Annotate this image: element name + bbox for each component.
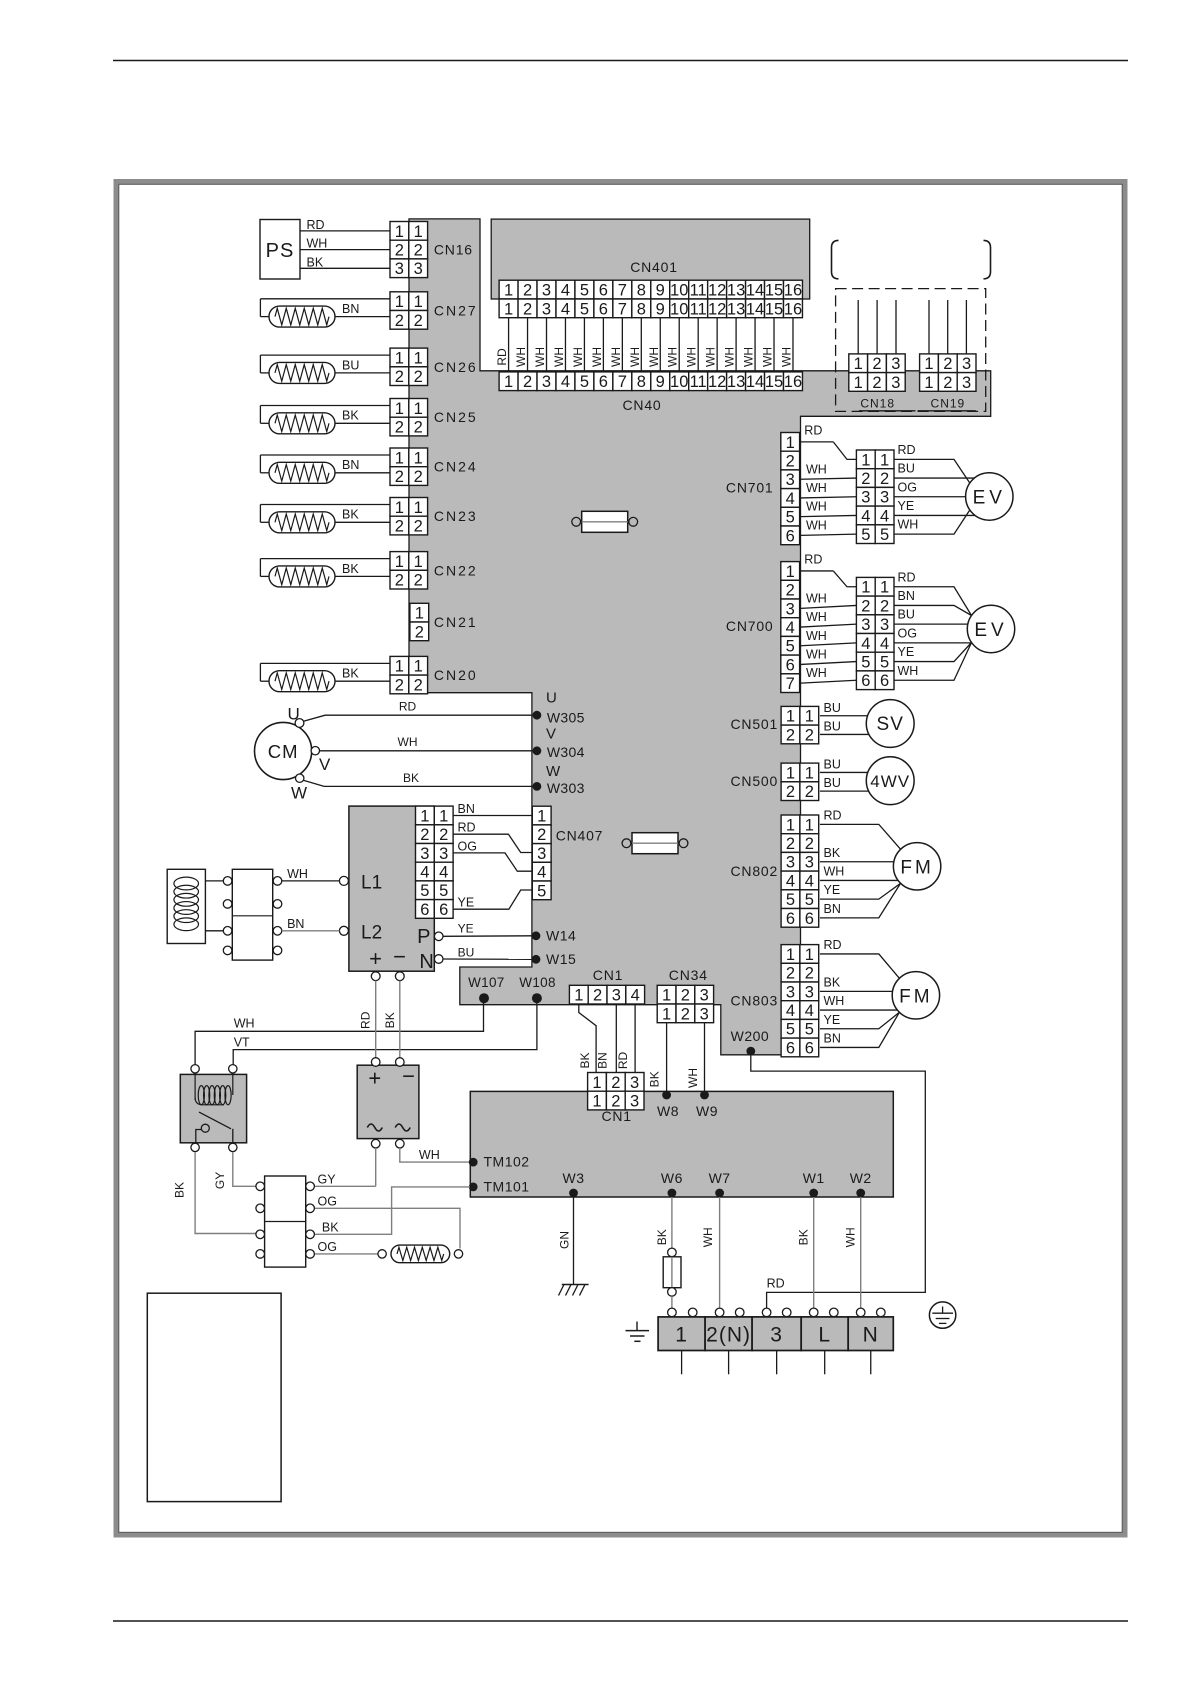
svg-text:11: 11 bbox=[690, 300, 707, 318]
svg-text:16: 16 bbox=[784, 373, 802, 391]
svg-text:WH: WH bbox=[514, 347, 528, 367]
svg-text:CN701: CN701 bbox=[726, 480, 774, 496]
svg-text:2: 2 bbox=[395, 517, 404, 535]
svg-text:3: 3 bbox=[630, 1074, 639, 1092]
svg-text:W15: W15 bbox=[546, 951, 576, 967]
svg-text:CN407: CN407 bbox=[556, 828, 604, 844]
svg-text:2: 2 bbox=[395, 572, 404, 590]
svg-text:2: 2 bbox=[395, 312, 404, 330]
svg-text:1: 1 bbox=[414, 223, 423, 241]
svg-text:2: 2 bbox=[943, 374, 952, 392]
svg-text:5: 5 bbox=[805, 891, 814, 909]
svg-text:EV: EV bbox=[973, 488, 1006, 509]
svg-text:1: 1 bbox=[861, 579, 870, 597]
svg-text:GN: GN bbox=[558, 1231, 572, 1249]
svg-text:WH: WH bbox=[552, 347, 566, 367]
svg-text:1: 1 bbox=[395, 553, 404, 571]
svg-text:W14: W14 bbox=[546, 927, 576, 943]
svg-text:VT: VT bbox=[234, 1036, 250, 1050]
svg-text:5: 5 bbox=[580, 373, 589, 391]
svg-text:6: 6 bbox=[786, 910, 795, 928]
svg-text:1: 1 bbox=[880, 579, 889, 597]
svg-text:+: + bbox=[369, 946, 382, 971]
svg-text:1: 1 bbox=[439, 807, 448, 825]
svg-text:4: 4 bbox=[786, 619, 795, 637]
svg-text:W108: W108 bbox=[519, 975, 555, 990]
svg-text:4: 4 bbox=[631, 987, 640, 1005]
svg-text:SV: SV bbox=[877, 714, 904, 735]
svg-text:1: 1 bbox=[415, 605, 424, 623]
svg-text:RD: RD bbox=[495, 348, 509, 366]
svg-text:W304: W304 bbox=[547, 744, 585, 760]
svg-text:2: 2 bbox=[414, 468, 423, 486]
svg-text:9: 9 bbox=[656, 281, 665, 299]
svg-text:1: 1 bbox=[537, 807, 546, 825]
svg-text:V: V bbox=[319, 755, 331, 774]
svg-text:OG: OG bbox=[318, 1194, 337, 1208]
svg-text:2: 2 bbox=[943, 355, 952, 373]
svg-text:GY: GY bbox=[318, 1172, 337, 1186]
svg-text:3: 3 bbox=[880, 489, 889, 507]
svg-text:15: 15 bbox=[765, 281, 783, 299]
svg-text:BU: BU bbox=[458, 946, 475, 960]
svg-text:2: 2 bbox=[414, 418, 423, 436]
svg-text:2: 2 bbox=[414, 312, 423, 330]
svg-text:2: 2 bbox=[414, 368, 423, 386]
svg-text:CN803: CN803 bbox=[731, 993, 779, 1009]
svg-text:WH: WH bbox=[628, 347, 642, 367]
svg-text:1: 1 bbox=[662, 1005, 671, 1023]
svg-text:2: 2 bbox=[523, 300, 532, 318]
svg-text:6: 6 bbox=[599, 373, 608, 391]
svg-text:1: 1 bbox=[414, 449, 423, 467]
svg-text:WH: WH bbox=[742, 347, 756, 367]
svg-text:W200: W200 bbox=[731, 1028, 770, 1044]
svg-text:BK: BK bbox=[578, 1052, 592, 1068]
svg-text:1: 1 bbox=[420, 807, 429, 825]
svg-text:2: 2 bbox=[786, 783, 795, 801]
svg-text:−: − bbox=[402, 1064, 415, 1089]
svg-text:CN16: CN16 bbox=[434, 242, 473, 258]
svg-text:RD: RD bbox=[359, 1011, 373, 1029]
svg-text:BU: BU bbox=[898, 462, 915, 476]
svg-text:BN: BN bbox=[824, 902, 841, 916]
svg-text:1: 1 bbox=[395, 223, 404, 241]
svg-text:BK: BK bbox=[307, 255, 324, 269]
svg-text:YE: YE bbox=[824, 1013, 841, 1027]
svg-text:PS: PS bbox=[266, 240, 295, 262]
svg-text:W6: W6 bbox=[661, 1170, 683, 1186]
svg-text:7: 7 bbox=[618, 281, 627, 299]
svg-text:2: 2 bbox=[537, 826, 546, 844]
svg-text:CN21: CN21 bbox=[434, 614, 478, 630]
svg-text:1: 1 bbox=[854, 374, 863, 392]
svg-text:6: 6 bbox=[420, 901, 429, 919]
svg-text:6: 6 bbox=[786, 656, 795, 674]
svg-text:WH: WH bbox=[898, 664, 919, 678]
svg-text:5: 5 bbox=[880, 526, 889, 544]
svg-text:4: 4 bbox=[537, 864, 546, 882]
svg-text:WH: WH bbox=[704, 347, 718, 367]
svg-text:U: U bbox=[288, 705, 300, 724]
svg-text:3: 3 bbox=[542, 300, 551, 318]
svg-text:4: 4 bbox=[805, 1002, 814, 1020]
svg-text:2(N): 2(N) bbox=[706, 1324, 751, 1347]
svg-text:YE: YE bbox=[458, 896, 475, 910]
svg-text:1: 1 bbox=[786, 434, 795, 452]
svg-text:3: 3 bbox=[542, 281, 551, 299]
svg-text:2: 2 bbox=[523, 373, 532, 391]
svg-text:9: 9 bbox=[656, 373, 665, 391]
svg-text:RD: RD bbox=[824, 938, 842, 952]
svg-text:10: 10 bbox=[670, 281, 688, 299]
svg-text:1: 1 bbox=[675, 1324, 688, 1347]
svg-text:BK: BK bbox=[342, 667, 359, 681]
svg-text:3: 3 bbox=[786, 854, 795, 872]
svg-text:10: 10 bbox=[670, 300, 688, 318]
svg-text:BN: BN bbox=[342, 458, 359, 472]
svg-text:WH: WH bbox=[571, 347, 585, 367]
svg-text:1: 1 bbox=[395, 499, 404, 517]
svg-text:4: 4 bbox=[561, 281, 570, 299]
svg-text:6: 6 bbox=[439, 901, 448, 919]
svg-text:1: 1 bbox=[786, 708, 795, 726]
svg-text:WH: WH bbox=[844, 1227, 858, 1247]
svg-text:U: U bbox=[546, 690, 557, 707]
svg-text:1: 1 bbox=[414, 400, 423, 418]
svg-text:1: 1 bbox=[414, 499, 423, 517]
svg-text:4WV: 4WV bbox=[870, 772, 910, 791]
svg-text:4: 4 bbox=[439, 863, 448, 881]
svg-text:13: 13 bbox=[727, 300, 745, 318]
svg-text:RD: RD bbox=[399, 700, 417, 714]
svg-text:BN: BN bbox=[596, 1052, 610, 1069]
svg-text:1: 1 bbox=[924, 355, 933, 373]
svg-text:RD: RD bbox=[804, 552, 822, 566]
svg-text:15: 15 bbox=[765, 373, 783, 391]
svg-text:5: 5 bbox=[880, 653, 889, 671]
svg-text:BK: BK bbox=[797, 1229, 811, 1245]
svg-text:3: 3 bbox=[770, 1324, 783, 1347]
svg-text:CN18: CN18 bbox=[860, 397, 895, 411]
svg-text:4: 4 bbox=[561, 373, 570, 391]
svg-text:2: 2 bbox=[805, 835, 814, 853]
svg-text:YE: YE bbox=[458, 922, 474, 936]
svg-text:1: 1 bbox=[854, 355, 863, 373]
svg-text:5: 5 bbox=[786, 891, 795, 909]
svg-text:14: 14 bbox=[746, 300, 764, 318]
svg-text:WH: WH bbox=[806, 610, 827, 624]
svg-text:BK: BK bbox=[648, 1071, 662, 1087]
svg-text:2: 2 bbox=[395, 368, 404, 386]
svg-text:4: 4 bbox=[561, 300, 570, 318]
svg-text:CM: CM bbox=[268, 741, 299, 762]
svg-text:1: 1 bbox=[786, 946, 795, 964]
svg-text:2: 2 bbox=[395, 468, 404, 486]
svg-text:L1: L1 bbox=[361, 873, 382, 894]
svg-text:CN23: CN23 bbox=[434, 508, 478, 524]
svg-text:1: 1 bbox=[786, 816, 795, 834]
svg-text:OG: OG bbox=[458, 839, 477, 853]
svg-text:RD: RD bbox=[458, 821, 476, 835]
svg-text:2: 2 bbox=[805, 965, 814, 983]
svg-text:WH: WH bbox=[806, 481, 827, 495]
svg-text:WH: WH bbox=[898, 518, 919, 532]
svg-text:OG: OG bbox=[898, 480, 917, 494]
svg-text:W: W bbox=[546, 763, 561, 780]
svg-text:W303: W303 bbox=[547, 780, 585, 796]
svg-text:6: 6 bbox=[805, 910, 814, 928]
svg-text:11: 11 bbox=[690, 281, 707, 299]
svg-text:1: 1 bbox=[805, 946, 814, 964]
svg-text:7: 7 bbox=[786, 675, 795, 693]
svg-text:5: 5 bbox=[420, 882, 429, 900]
svg-text:6: 6 bbox=[861, 672, 870, 690]
svg-text:14: 14 bbox=[746, 373, 764, 391]
svg-text:2: 2 bbox=[414, 572, 423, 590]
svg-text:WH: WH bbox=[234, 1017, 255, 1031]
svg-text:WH: WH bbox=[647, 347, 661, 367]
svg-text:WH: WH bbox=[806, 500, 827, 514]
svg-text:CN19: CN19 bbox=[931, 397, 966, 411]
svg-text:1: 1 bbox=[414, 553, 423, 571]
svg-text:1: 1 bbox=[504, 373, 513, 391]
svg-text:CN1: CN1 bbox=[601, 1108, 631, 1124]
svg-text:WH: WH bbox=[824, 864, 845, 878]
svg-text:CN26: CN26 bbox=[434, 359, 478, 375]
svg-text:WH: WH bbox=[723, 347, 737, 367]
svg-text:W: W bbox=[291, 784, 307, 803]
svg-text:2: 2 bbox=[805, 783, 814, 801]
svg-text:RD: RD bbox=[307, 218, 325, 232]
svg-text:3: 3 bbox=[537, 845, 546, 863]
svg-text:RD: RD bbox=[616, 1052, 630, 1070]
svg-text:1: 1 bbox=[395, 293, 404, 311]
svg-text:1: 1 bbox=[805, 816, 814, 834]
svg-text:TM102: TM102 bbox=[484, 1154, 530, 1170]
svg-text:12: 12 bbox=[708, 300, 726, 318]
svg-text:11: 11 bbox=[690, 373, 707, 391]
svg-text:FM: FM bbox=[900, 857, 933, 878]
svg-text:7: 7 bbox=[618, 300, 627, 318]
svg-text:L2: L2 bbox=[361, 922, 382, 943]
svg-text:2: 2 bbox=[611, 1074, 620, 1092]
svg-text:W7: W7 bbox=[709, 1170, 731, 1186]
svg-text:8: 8 bbox=[637, 300, 646, 318]
svg-text:3: 3 bbox=[414, 260, 423, 278]
svg-text:BK: BK bbox=[173, 1182, 187, 1198]
svg-text:1: 1 bbox=[662, 987, 671, 1005]
svg-text:5: 5 bbox=[786, 509, 795, 527]
svg-text:CN802: CN802 bbox=[731, 863, 779, 879]
svg-text:CN40: CN40 bbox=[623, 397, 662, 413]
svg-text:WH: WH bbox=[806, 647, 827, 661]
svg-text:4: 4 bbox=[786, 1002, 795, 1020]
svg-text:BK: BK bbox=[824, 975, 841, 989]
svg-text:4: 4 bbox=[420, 863, 429, 881]
svg-text:7: 7 bbox=[618, 373, 627, 391]
svg-text:WH: WH bbox=[824, 994, 845, 1008]
svg-text:1: 1 bbox=[786, 563, 795, 581]
svg-text:3: 3 bbox=[786, 600, 795, 618]
svg-text:14: 14 bbox=[746, 281, 764, 299]
svg-text:BK: BK bbox=[342, 508, 359, 522]
svg-text:W9: W9 bbox=[696, 1103, 718, 1119]
svg-text:BN: BN bbox=[824, 1031, 841, 1045]
svg-text:2: 2 bbox=[786, 835, 795, 853]
svg-text:4: 4 bbox=[786, 872, 795, 890]
svg-text:3: 3 bbox=[962, 374, 971, 392]
svg-text:16: 16 bbox=[784, 300, 802, 318]
svg-text:V: V bbox=[546, 726, 556, 743]
svg-text:4: 4 bbox=[805, 872, 814, 890]
svg-text:WH: WH bbox=[779, 347, 793, 367]
svg-text:4: 4 bbox=[880, 635, 889, 653]
svg-text:WH: WH bbox=[806, 666, 827, 680]
svg-text:W3: W3 bbox=[563, 1170, 585, 1186]
svg-text:2: 2 bbox=[420, 826, 429, 844]
svg-text:BU: BU bbox=[824, 776, 841, 790]
svg-text:8: 8 bbox=[637, 281, 646, 299]
svg-text:WH: WH bbox=[533, 347, 547, 367]
svg-text:5: 5 bbox=[861, 653, 870, 671]
svg-text:W2: W2 bbox=[850, 1170, 872, 1186]
svg-text:WH: WH bbox=[398, 735, 418, 749]
svg-text:2: 2 bbox=[414, 241, 423, 259]
svg-text:3: 3 bbox=[786, 983, 795, 1001]
svg-text:YE: YE bbox=[898, 645, 915, 659]
svg-text:3: 3 bbox=[542, 373, 551, 391]
svg-text:3: 3 bbox=[891, 374, 900, 392]
svg-text:2: 2 bbox=[786, 726, 795, 744]
svg-text:1: 1 bbox=[574, 987, 583, 1005]
svg-text:RD: RD bbox=[767, 1277, 785, 1291]
svg-text:WH: WH bbox=[806, 462, 827, 476]
svg-text:BU: BU bbox=[824, 757, 841, 771]
svg-text:1: 1 bbox=[414, 658, 423, 676]
svg-text:+: + bbox=[368, 1066, 381, 1091]
svg-text:OG: OG bbox=[318, 1240, 337, 1254]
svg-text:WH: WH bbox=[666, 347, 680, 367]
svg-text:CN25: CN25 bbox=[434, 409, 478, 425]
svg-text:6: 6 bbox=[880, 672, 889, 690]
svg-text:1: 1 bbox=[395, 349, 404, 367]
svg-text:WH: WH bbox=[806, 591, 827, 605]
svg-text:W1: W1 bbox=[803, 1170, 825, 1186]
svg-text:CN501: CN501 bbox=[731, 716, 779, 732]
svg-text:WH: WH bbox=[590, 347, 604, 367]
svg-text:3: 3 bbox=[861, 616, 870, 634]
svg-text:BN: BN bbox=[458, 802, 475, 816]
svg-text:3: 3 bbox=[805, 983, 814, 1001]
svg-text:CN24: CN24 bbox=[434, 459, 478, 475]
svg-text:OG: OG bbox=[898, 626, 917, 640]
svg-text:W107: W107 bbox=[468, 975, 504, 990]
svg-text:CN500: CN500 bbox=[731, 773, 779, 789]
svg-text:6: 6 bbox=[786, 1039, 795, 1057]
svg-text:YE: YE bbox=[898, 499, 915, 513]
svg-text:12: 12 bbox=[708, 281, 726, 299]
svg-text:4: 4 bbox=[786, 490, 795, 508]
svg-text:CN27: CN27 bbox=[434, 303, 478, 319]
svg-text:BK: BK bbox=[655, 1229, 669, 1245]
svg-text:6: 6 bbox=[786, 527, 795, 545]
svg-text:WH: WH bbox=[609, 347, 623, 367]
svg-text:CN700: CN700 bbox=[726, 618, 774, 634]
svg-text:1: 1 bbox=[395, 449, 404, 467]
svg-text:8: 8 bbox=[637, 373, 646, 391]
svg-text:1: 1 bbox=[504, 281, 513, 299]
svg-text:3: 3 bbox=[805, 854, 814, 872]
svg-text:WH: WH bbox=[806, 629, 827, 643]
svg-text:16: 16 bbox=[784, 281, 802, 299]
svg-text:2: 2 bbox=[395, 418, 404, 436]
svg-text:3: 3 bbox=[891, 355, 900, 373]
svg-text:WH: WH bbox=[686, 1068, 700, 1088]
svg-text:2: 2 bbox=[681, 987, 690, 1005]
svg-text:5: 5 bbox=[805, 1021, 814, 1039]
svg-text:WH: WH bbox=[701, 1227, 715, 1247]
svg-text:1: 1 bbox=[805, 764, 814, 782]
svg-text:5: 5 bbox=[861, 526, 870, 544]
svg-text:WH: WH bbox=[307, 237, 328, 251]
svg-text:1: 1 bbox=[924, 374, 933, 392]
svg-text:1: 1 bbox=[592, 1074, 601, 1092]
svg-text:WH: WH bbox=[806, 518, 827, 532]
svg-text:2: 2 bbox=[414, 517, 423, 535]
svg-text:4: 4 bbox=[861, 507, 870, 525]
svg-text:WH: WH bbox=[761, 347, 775, 367]
svg-text:CN22: CN22 bbox=[434, 562, 478, 578]
svg-text:2: 2 bbox=[786, 965, 795, 983]
svg-text:13: 13 bbox=[727, 281, 745, 299]
svg-text:3: 3 bbox=[439, 845, 448, 863]
svg-text:2: 2 bbox=[681, 1005, 690, 1023]
svg-text:6: 6 bbox=[599, 281, 608, 299]
svg-text:BN: BN bbox=[342, 302, 359, 316]
svg-text:P: P bbox=[417, 926, 430, 948]
svg-text:1: 1 bbox=[861, 451, 870, 469]
svg-text:2: 2 bbox=[861, 597, 870, 615]
svg-text:3: 3 bbox=[395, 260, 404, 278]
svg-text:L: L bbox=[818, 1324, 831, 1347]
svg-text:2: 2 bbox=[786, 582, 795, 600]
svg-text:12: 12 bbox=[708, 373, 726, 391]
svg-text:1: 1 bbox=[395, 400, 404, 418]
svg-text:2: 2 bbox=[861, 470, 870, 488]
svg-text:2: 2 bbox=[786, 452, 795, 470]
svg-text:BK: BK bbox=[342, 562, 359, 576]
svg-text:GY: GY bbox=[213, 1172, 227, 1189]
svg-text:WH: WH bbox=[685, 347, 699, 367]
svg-text:1: 1 bbox=[805, 708, 814, 726]
svg-text:2: 2 bbox=[415, 623, 424, 641]
svg-text:N: N bbox=[419, 951, 433, 973]
svg-text:W8: W8 bbox=[657, 1103, 679, 1119]
svg-text:BN: BN bbox=[898, 589, 915, 603]
svg-text:2: 2 bbox=[872, 374, 881, 392]
svg-text:WH: WH bbox=[419, 1148, 440, 1162]
svg-text:FM: FM bbox=[899, 986, 932, 1007]
svg-text:4: 4 bbox=[861, 635, 870, 653]
svg-text:RD: RD bbox=[898, 570, 916, 584]
svg-text:BU: BU bbox=[824, 701, 841, 715]
svg-text:5: 5 bbox=[580, 300, 589, 318]
svg-text:BK: BK bbox=[403, 771, 419, 785]
svg-text:BN: BN bbox=[287, 917, 304, 931]
svg-text:−: − bbox=[393, 944, 406, 969]
svg-text:BK: BK bbox=[383, 1012, 397, 1028]
